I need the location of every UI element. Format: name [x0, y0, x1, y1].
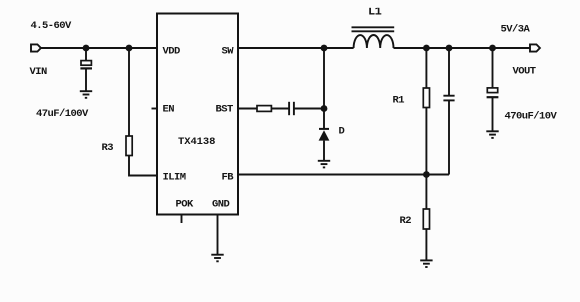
svg-text:TX4138: TX4138	[178, 136, 215, 148]
svg-text:R1: R1	[393, 95, 405, 107]
resistor R2	[423, 209, 429, 229]
resistor R1	[423, 88, 429, 108]
svg-text:FB: FB	[222, 172, 235, 184]
svg-text:R2: R2	[400, 215, 412, 227]
connector VIN plug	[31, 44, 41, 51]
svg-text:VDD: VDD	[163, 45, 181, 57]
wire SW rail	[238, 47, 354, 49]
ground (diode)	[318, 161, 330, 168]
ground (R2)	[420, 260, 432, 267]
wire FB rail	[238, 174, 449, 176]
diode D	[319, 129, 330, 160]
wire R3 to ILIM	[129, 156, 157, 176]
svg-text:47uF/100V: 47uF/100V	[36, 108, 89, 120]
svg-text:POK: POK	[176, 199, 195, 211]
wire EN stub	[152, 108, 158, 110]
wire cap to BST node	[294, 108, 324, 110]
svg-text:470uF/10V: 470uF/10V	[505, 111, 558, 123]
svg-text:5V/3A: 5V/3A	[501, 24, 531, 36]
svg-text:SW: SW	[222, 45, 235, 57]
wire VIN rail	[41, 47, 157, 49]
svg-text:BST: BST	[216, 104, 234, 116]
wire R1 bottom	[425, 108, 427, 175]
wire GND pin down	[217, 215, 219, 255]
svg-text:ILIM: ILIM	[163, 172, 186, 184]
svg-text:R3: R3	[102, 142, 114, 154]
resistor R3	[126, 136, 132, 156]
capacitor C3 470uF/10V	[487, 48, 499, 131]
node C3 junction	[489, 45, 496, 52]
svg-text:VIN: VIN	[30, 66, 48, 78]
svg-text:EN: EN	[163, 104, 175, 116]
resistor (boost, unlabeled)	[257, 106, 271, 112]
capacitor C1 47uF/100V	[80, 48, 92, 91]
wire VOUT rail	[394, 47, 531, 49]
ground (input cap)	[80, 91, 92, 98]
node SW junction	[321, 45, 328, 52]
op-amp U1 TX4138 IC body	[157, 14, 238, 215]
svg-text:GND: GND	[212, 199, 230, 211]
node junction R3 branch	[126, 45, 133, 52]
node C2 junction	[446, 45, 453, 52]
wire BST branch	[238, 108, 257, 110]
wire R1 top	[425, 48, 427, 88]
capacitor (boost, unlabeled)	[289, 102, 294, 115]
wire R2 top	[425, 175, 427, 210]
capacitor C2 (feedforward)	[443, 48, 454, 175]
svg-text:4.5-60V: 4.5-60V	[31, 20, 73, 32]
wire POK stub	[181, 215, 183, 224]
node R1 junction	[423, 45, 430, 52]
svg-text:D: D	[339, 126, 345, 138]
inductor L1	[352, 27, 395, 48]
node junction input cap	[83, 45, 90, 52]
node FB junction	[423, 171, 430, 178]
wire R2 bottom	[425, 229, 427, 260]
svg-text:VOUT: VOUT	[513, 66, 536, 78]
node BST junction	[321, 105, 328, 112]
wire resistor to cap	[271, 108, 289, 110]
ground (output cap)	[486, 131, 498, 138]
wire SW down to diode	[323, 48, 325, 129]
connector VOUT plug	[530, 44, 540, 51]
wire R3 branch down	[128, 48, 130, 136]
ground (IC GND pin)	[211, 255, 223, 262]
